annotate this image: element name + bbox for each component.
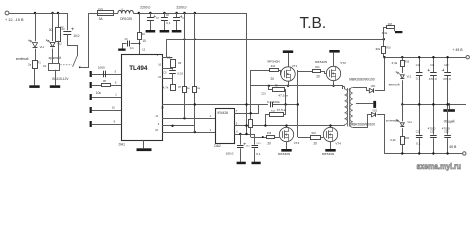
resistor R14 47.5 [270, 111, 284, 117]
ground pin6 [90, 82, 92, 88]
ground C12 [237, 162, 246, 165]
pin 9 wire [158, 123, 195, 126]
node vcc col end [245, 133, 247, 135]
node busA-VT2 [262, 136, 264, 138]
resistor R1 2k [28, 61, 41, 69]
node pin9-col [171, 125, 173, 127]
wire VT4 source [330, 142, 332, 149]
svg-text:TL494: TL494 [129, 65, 148, 72]
svg-text:20: 20 [316, 74, 320, 78]
svg-text:BS115-12V: BS115-12V [52, 77, 69, 81]
wire VL2-K1 [52, 49, 54, 64]
wire VD2 out [377, 115, 384, 154]
wire VL1-R1 [35, 49, 37, 61]
svg-text:3,3к: 3,3к [392, 61, 398, 65]
pin 10 wire to driver pin 4 [155, 129, 216, 133]
resistor R9 bus [249, 120, 253, 128]
wire +12V rail [9, 13, 67, 15]
ground C9 [172, 30, 182, 33]
wire +45 rail [385, 57, 467, 59]
pin 15 wire [158, 76, 172, 79]
inductor L1 DR1025 [118, 9, 134, 21]
node contact fixed [79, 66, 81, 68]
svg-text:470,0: 470,0 [442, 126, 450, 130]
svg-text:R15: R15 [267, 133, 272, 135]
svg-text:С23: С23 [444, 131, 449, 133]
node outB-vcc col [245, 124, 247, 126]
svg-text:470,0: 470,0 [428, 126, 436, 130]
svg-text:20: 20 [267, 141, 271, 145]
wire switched +12V rail [133, 14, 246, 135]
wire VT3 drain [333, 53, 335, 67]
svg-text:С18: С18 [416, 65, 421, 67]
capacitor C21 0.1 lower [416, 103, 423, 154]
capacitor C23 470.0 lower [442, 103, 451, 154]
svg-text:К1: К1 [43, 64, 47, 68]
transformer T1 secondary [350, 87, 353, 127]
node VT1 source [287, 85, 289, 87]
node C8 tap [163, 12, 165, 14]
ground pin10 [90, 107, 92, 113]
capacitor C9 2200.0 [173, 6, 187, 30]
center tap bar [373, 101, 376, 108]
ground pin9 [90, 121, 92, 127]
node pin10-R11col [194, 131, 196, 133]
node pin13 junction [245, 103, 247, 105]
ground C8 [160, 30, 170, 33]
svg-text:R20: R20 [405, 138, 410, 140]
node rail tap VL2 [51, 12, 53, 14]
svg-text:IRF540N: IRF540N [315, 60, 327, 64]
driver U2 IR4426 body [216, 109, 235, 144]
wire R11 column [194, 13, 196, 132]
capacitor C13 0.1 [252, 134, 262, 162]
wire feedback rail [166, 39, 383, 41]
svg-text:VT1: VT1 [292, 64, 298, 68]
capacitor C12 100.0 [226, 134, 251, 162]
wire VL3-common [402, 80, 404, 104]
svg-text:С21: С21 [416, 131, 421, 133]
svg-text:Т.В.: Т.В. [300, 15, 327, 32]
node VT3 source [332, 85, 334, 87]
wire snubR1 left stub [269, 86, 273, 90]
node snubR2 leg [264, 124, 266, 126]
wire fuse-L1 [113, 13, 118, 15]
svg-text:30: 30 [49, 28, 53, 32]
svg-text:sxema.myl.ru: sxema.myl.ru [417, 161, 462, 171]
wire VT2 top [286, 126, 288, 128]
svg-text:10,0: 10,0 [73, 34, 79, 38]
node rail tap R2 [57, 12, 59, 14]
LED VL3 yellow [396, 71, 412, 78]
capacitor C6 0.1 pin12 [122, 39, 140, 50]
svg-text:0,1: 0,1 [256, 152, 261, 156]
capacitor C16 0.1x100v [261, 93, 272, 107]
ground C6 [118, 49, 125, 51]
svg-text:IRF540N: IRF540N [267, 59, 279, 63]
svg-text:VT4: VT4 [335, 141, 341, 145]
svg-text:0,01: 0,01 [177, 72, 183, 76]
svg-text:IRF540N: IRF540N [278, 152, 290, 156]
wire VL4-R20 [402, 128, 404, 136]
output terminal +45 [466, 56, 469, 59]
svg-text:0,1: 0,1 [416, 77, 421, 81]
svg-text:зелёный: зелёный [16, 57, 29, 61]
svg-text:470,0: 470,0 [429, 77, 437, 81]
svg-text:С20: С20 [444, 65, 449, 67]
output terminal -45 [463, 152, 466, 155]
svg-text:3,3к: 3,3к [390, 138, 396, 142]
wire center tap [356, 103, 373, 105]
svg-text:3,3к: 3,3к [382, 31, 388, 35]
svg-text:DR1025: DR1025 [120, 17, 132, 21]
wire fb node [383, 38, 385, 40]
node fb-R10col [184, 38, 186, 40]
pin 5 wire out B / lower leg [234, 122, 342, 125]
wire R2-K1 [58, 41, 60, 63]
wire col down1 [172, 67, 174, 69]
svg-text:R12: R12 [271, 66, 276, 68]
node R10col tap [183, 12, 185, 14]
transistor VT1 IRF540N [281, 64, 298, 81]
ground pin1 [90, 94, 92, 100]
svg-text:R19: R19 [405, 61, 410, 63]
node C7 tap [149, 12, 151, 14]
node vcc cap1 [239, 133, 241, 135]
wire snubR2 left stub [266, 115, 270, 126]
relay contact link dashed [60, 64, 72, 66]
svg-text:+ 45 В: + 45 В [452, 48, 463, 52]
svg-text:20: 20 [313, 141, 317, 145]
wire VL2 drop [52, 13, 54, 41]
resistor R16 20 [311, 133, 321, 146]
wire R10 column [184, 13, 186, 118]
capacitor C2 10.0 [60, 13, 79, 38]
wire fb riser [384, 28, 387, 40]
svg-text:VD2: VD2 [372, 109, 377, 112]
wire K1-gnd [55, 70, 57, 86]
node ind mid [401, 103, 403, 105]
svg-text:+ 12...15 В: + 12...15 В [5, 18, 24, 22]
pin 13 wire to drivers [161, 105, 268, 110]
svg-text:12: 12 [142, 47, 146, 51]
capacitor C10 0.01 [164, 71, 184, 76]
pin 1 wire [92, 93, 122, 98]
wire R1-gnd [34, 69, 36, 86]
node fb-R11col [194, 38, 196, 40]
pin 11 wire to driver pin 2 [155, 115, 215, 118]
svg-text:20: 20 [271, 77, 275, 81]
node snub mid r [284, 103, 286, 105]
wire C2 to contact [68, 34, 78, 56]
node C9 tap [175, 12, 177, 14]
relay contact K1.1 blade [73, 56, 78, 67]
ground VT2 [281, 149, 291, 152]
wire R15-VT2 [274, 137, 279, 139]
LED VL1 green [28, 40, 44, 50]
wire gateB VT3 [298, 71, 313, 73]
wire VT1 drain [288, 53, 290, 67]
svg-text:30к: 30к [167, 56, 172, 60]
transistor VT4 IRF540N [323, 127, 341, 145]
svg-text:47,5 вт: 47,5 вт [278, 93, 288, 97]
wire R17-gnd [394, 28, 396, 32]
ground TL494 [137, 141, 152, 152]
svg-text:С19: С19 [430, 65, 435, 67]
node pin11-R10col [183, 117, 185, 119]
input terminal X1 +12..15V [5, 11, 9, 15]
resistor R15 20 [267, 133, 275, 146]
svg-text:0,1: 0,1 [130, 46, 134, 50]
capacitor C8 0.1 [161, 13, 171, 30]
wire secondary top [353, 88, 370, 91]
svg-text:VT3: VT3 [340, 61, 346, 65]
svg-text:MBR2080/90/100: MBR2080/90/100 [351, 122, 376, 126]
transistor VT3 IRF540N [326, 61, 346, 81]
svg-text:зеленый: зеленый [386, 118, 398, 122]
svg-text:4,7к: 4,7к [163, 85, 169, 89]
ground VL1 branch [29, 85, 39, 88]
LED VL2 red [46, 40, 62, 47]
wire driver bus B [297, 70, 299, 137]
svg-text:DA1: DA1 [119, 142, 126, 146]
node pin13-R11col [194, 103, 196, 105]
diode VD2 MBR2080 [371, 109, 377, 116]
ground VT1 drain [283, 50, 293, 53]
node VT2 leg [285, 124, 287, 126]
LED VL4 green [396, 119, 413, 126]
node ind bottom [401, 152, 403, 154]
wire pin13 to busB [272, 104, 297, 106]
wire VT1 source [288, 81, 290, 86]
svg-text:R16: R16 [312, 133, 317, 135]
pin 9 wire [92, 120, 122, 125]
pin 5 wire + capacitor 1000 [92, 66, 122, 78]
wire gateA VT2 [251, 137, 266, 139]
wire contact to fuse [80, 14, 97, 68]
resistor R18 30k [375, 39, 391, 57]
wire driver bus A [250, 70, 252, 137]
svg-text:IR4426: IR4426 [218, 111, 229, 115]
svg-text:10к: 10к [96, 91, 102, 95]
svg-text:IRF540N: IRF540N [322, 152, 334, 156]
transistor VT2 IRF540N [279, 127, 299, 145]
resistor R12 20 [270, 66, 279, 81]
svg-text:100,0: 100,0 [226, 152, 234, 156]
resistor R6 30k [167, 56, 182, 68]
node ind top [401, 56, 403, 58]
svg-text:желтый: желтый [389, 82, 400, 86]
svg-text:R18: R18 [386, 48, 391, 50]
node +45 rail left [383, 56, 385, 58]
svg-text:VL4: VL4 [407, 121, 412, 124]
node R11col tap [194, 12, 196, 14]
svg-text:10: 10 [142, 39, 146, 43]
ground C13 [252, 162, 261, 165]
ground C7 [146, 30, 156, 33]
capacitor C22 470.0 lower [428, 103, 437, 154]
node rail tap VL1 [34, 12, 36, 14]
svg-text:30к: 30к [375, 47, 380, 51]
capacitor C19 470.0 upper [428, 56, 437, 106]
svg-text:- 45 В: - 45 В [447, 145, 457, 149]
capacitor C18 0.1 upper [416, 56, 423, 106]
wire R16-VT4 [321, 137, 323, 139]
wire col down2 [172, 73, 174, 84]
svg-text:0,1: 0,1 [166, 21, 171, 25]
wire snubR1 right stub [284, 90, 286, 105]
wire Vcc pin 6 [234, 131, 254, 135]
wire -45 rail [384, 153, 462, 155]
svg-text:0,1: 0,1 [416, 141, 421, 145]
pin 6 wire + resistor R5 10k [92, 81, 122, 95]
svg-text:VL3: VL3 [407, 75, 412, 78]
capacitor C7 2200.0 [140, 6, 159, 30]
wire R2 drop [58, 13, 60, 27]
wire common-VL4 [402, 104, 404, 121]
svg-text:R13: R13 [315, 67, 320, 69]
wire upper leg [251, 86, 343, 90]
svg-text:VT2: VT2 [294, 141, 300, 145]
svg-text:красный: красный [49, 56, 62, 60]
fuse FU1 3A [97, 9, 114, 21]
svg-text:470,0: 470,0 [443, 77, 451, 81]
pin 3 wire feedback [157, 54, 173, 57]
resistor R13 20 [313, 67, 321, 78]
diode VD1 MBR2080 [369, 85, 376, 93]
resistor R17 3.3k [387, 24, 395, 29]
ground VT4 [325, 149, 335, 152]
resistor R20 3.3k [390, 137, 410, 154]
pin 16 wire [158, 63, 172, 68]
node snubR1 left [268, 85, 270, 87]
wire gateB VT4 [298, 137, 311, 139]
wire VT4 top [330, 126, 332, 128]
node pin12 [139, 43, 141, 45]
svg-text:Общий: Общий [444, 119, 455, 123]
svg-text:С16: С16 [261, 93, 266, 95]
svg-text:FU1: FU1 [98, 9, 103, 11]
wire feedback riser [166, 39, 168, 57]
wire R13-VT3 [321, 72, 326, 74]
svg-text:1000: 1000 [98, 66, 105, 70]
ground relay branch [50, 85, 60, 88]
capacitor C20 470.0 upper [442, 56, 451, 106]
svg-text:MBR2080/90/100: MBR2080/90/100 [349, 78, 374, 82]
relay coil K1 BS115-12V [43, 64, 60, 71]
wire VT3 source [333, 81, 335, 86]
node busB-pin13 [297, 103, 299, 105]
svg-text:VD1: VD1 [371, 85, 376, 88]
ground R17 [395, 31, 402, 33]
svg-text:2200,0: 2200,0 [140, 6, 150, 10]
node R4 tap [138, 12, 140, 14]
resistor R4 10 Vcc feed [138, 13, 146, 54]
svg-text:DA2: DA2 [214, 144, 221, 148]
ground common [443, 103, 455, 112]
resistor R2 30 [49, 28, 66, 42]
wire secondary bottom [353, 115, 372, 128]
transformer T1 primary [343, 87, 348, 126]
resistor R10 1k [183, 86, 191, 92]
svg-text:R17: R17 [388, 24, 393, 26]
resistor R19 3.3k [392, 57, 410, 73]
wire gateA VT1 [251, 70, 270, 72]
wire snubR2 right stub [283, 105, 286, 115]
pin 7 wire out A [234, 105, 258, 114]
pin 10 wire [92, 106, 122, 111]
wire VT2 source [286, 142, 288, 149]
transformer T1 core [348, 88, 350, 127]
node VT4 leg [329, 124, 331, 126]
wire VL1 drop [35, 13, 37, 41]
ground pin5 [90, 71, 92, 77]
node busA-pin7 [250, 112, 252, 114]
wire common rail [402, 104, 466, 106]
resistor R11 1k [193, 86, 201, 92]
svg-text:2200,0: 2200,0 [176, 6, 186, 10]
wire R12-VT1 [279, 71, 281, 75]
op-amp U1 TL494 body [122, 55, 163, 141]
resistor R8 47.5 [273, 86, 285, 92]
resistor R7 4.7k [163, 85, 182, 91]
wire VD1 out [375, 57, 385, 90]
svg-text:С22: С22 [430, 131, 435, 133]
ground VT3 drain [329, 50, 339, 53]
svg-text:0,1х100в: 0,1х100в [267, 100, 280, 104]
